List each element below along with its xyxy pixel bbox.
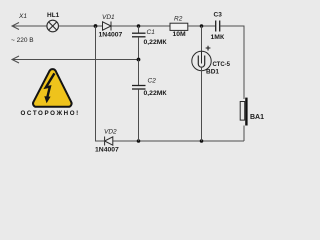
gas tube BD1 circle xyxy=(192,51,211,70)
junction node (BD1 top) xyxy=(200,24,204,28)
svg-text:R2: R2 xyxy=(174,16,183,23)
wire left vertical (return) xyxy=(95,26,97,142)
capacitor C3 1MK xyxy=(216,21,220,32)
svg-text:ОСТОРОЖНО!: ОСТОРОЖНО! xyxy=(21,110,80,117)
svg-text:1МК: 1МК xyxy=(211,34,225,41)
BD1 anode line xyxy=(201,52,203,64)
earphone BA1 xyxy=(240,102,245,121)
wire: top mains lead with arrow (plug X1) xyxy=(12,23,47,30)
svg-text:VD1: VD1 xyxy=(102,14,115,21)
resistor R2 10M xyxy=(170,23,188,30)
junction node (top left) xyxy=(94,24,98,28)
svg-text:1N4007: 1N4007 xyxy=(99,31,123,38)
wire VD1 to R2 xyxy=(112,25,171,27)
wire lamp to VD1 xyxy=(59,25,103,27)
svg-text:BA1: BA1 xyxy=(250,114,264,121)
svg-text:C2: C2 xyxy=(148,78,157,85)
svg-text:VD2: VD2 xyxy=(104,129,117,136)
diode VD2 1N4007 xyxy=(105,137,113,146)
svg-text:1N4007: 1N4007 xyxy=(95,147,119,154)
svg-text:0,22МК: 0,22МК xyxy=(144,90,168,97)
BD1 bottom lead xyxy=(201,67,203,141)
diode VD1 1N4007 xyxy=(103,22,112,31)
capacitor C2 0.22MK xyxy=(138,60,140,86)
wire VD2 to left corner xyxy=(95,140,104,142)
svg-text:~ 220 В: ~ 220 В xyxy=(11,37,34,44)
BD1 cathode U xyxy=(198,56,204,68)
wire C3 to right corner xyxy=(220,25,244,27)
junction node (C1 top) xyxy=(137,24,141,28)
svg-text:BD1: BD1 xyxy=(206,69,219,76)
svg-text:0,22МК: 0,22МК xyxy=(144,39,168,46)
svg-text:10M: 10M xyxy=(173,31,187,38)
junction node (C2 bottom) xyxy=(137,139,141,143)
svg-text:X1: X1 xyxy=(18,13,27,20)
wire right vertical down to BA1 xyxy=(243,26,245,100)
wire BA1 to bottom corner xyxy=(243,126,245,142)
svg-text:C3: C3 xyxy=(214,12,223,19)
gas tube BD1 CTC-5 : top lead xyxy=(201,26,203,52)
svg-text:C1: C1 xyxy=(147,29,156,36)
wire: second mains lead with arrow (plug X1) xyxy=(12,56,139,63)
wire bottom rail xyxy=(113,140,244,142)
svg-text:+: + xyxy=(205,43,211,54)
wire R2 to C3 xyxy=(188,25,216,27)
capacitor C1 0.22MK xyxy=(138,26,140,33)
lightning bolt xyxy=(46,73,55,98)
svg-text:HL1: HL1 xyxy=(47,12,60,19)
warning triangle xyxy=(33,69,72,107)
junction node (BD1 bottom) xyxy=(200,139,204,143)
svg-text:СТС-5: СТС-5 xyxy=(213,62,231,68)
lamp HL1 xyxy=(47,20,59,32)
junction node (C1/C2 mid) xyxy=(137,58,141,62)
